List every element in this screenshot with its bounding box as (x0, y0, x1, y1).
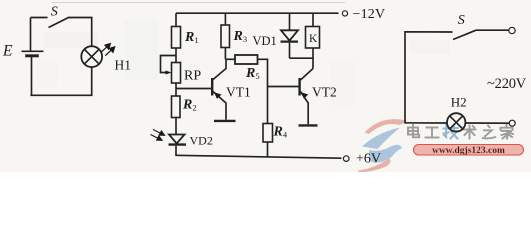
lamp H1 (81, 46, 102, 67)
transistor VT1 base bar (211, 78, 213, 96)
transistor VT2 emitter lead (301, 92, 309, 125)
scan smudge artifacts (37, 20, 450, 106)
photodiode VD2 cathode bar (169, 143, 187, 145)
wire VD2 to bottom rail (175, 146, 177, 156)
resistor R2 (172, 96, 181, 118)
terminal bottom right (509, 120, 515, 126)
wire node A to R5 (225, 58, 235, 60)
wire K to VT2 collector (312, 48, 314, 69)
wire R1 to RP (175, 48, 177, 63)
wire node B to VT2 base (268, 86, 299, 88)
wire +6V bottom rail (175, 155, 341, 158)
wire VD1 to node C (289, 43, 291, 59)
wire node C VD1 to K (290, 57, 314, 59)
svg-text:H2: H2 (451, 95, 467, 110)
photodiode VD2 light arrows (151, 130, 165, 141)
wire RP rheostat wiper loop (161, 56, 177, 73)
transistor VT1 collector lead (213, 59, 226, 79)
watermark red url box (414, 145, 524, 157)
lamp H2 (447, 113, 465, 131)
wire R2 to VD2 (175, 118, 177, 135)
resistor R5 (235, 55, 258, 64)
wire right circuit left side (405, 32, 453, 123)
transistor VT2 collector lead (301, 69, 314, 81)
wire node RP-R2 to VT1 base (176, 88, 211, 90)
ground bar VT1 emitter (214, 120, 236, 122)
svg-text:R4: R4 (273, 125, 288, 140)
svg-text:RP: RP (184, 69, 201, 84)
terminal -12V (342, 11, 347, 16)
svg-text:R1: R1 (184, 30, 199, 45)
watermark logo swirl (358, 119, 407, 172)
wire rail to VD1 (289, 13, 291, 30)
diode VD1 triangle (281, 30, 298, 40)
svg-text:VD1: VD1 (253, 34, 277, 48)
wire battery E bottom to lamp H1 bottom (31, 56, 92, 96)
potentiometer RP wiper arrowhead (166, 71, 172, 75)
wire rail to R1 (175, 13, 177, 26)
photodiode VD2 triangle (169, 135, 185, 144)
svg-text:www.dgjs123.com: www.dgjs123.com (432, 146, 505, 156)
svg-text:K: K (309, 33, 318, 45)
battery E positive plate (22, 50, 44, 52)
wire rail to relay K (312, 13, 314, 26)
diode VD1 cathode bar (281, 40, 299, 42)
transistor VT2 base bar (298, 78, 300, 96)
wire left vertical to battery E (30, 18, 32, 52)
relay coil K (306, 27, 320, 49)
wire switch S to terminal (476, 29, 509, 31)
terminal top right (509, 27, 515, 33)
wire RP to R2 (175, 83, 177, 96)
resistor R1 (172, 27, 181, 49)
svg-text:R5: R5 (245, 66, 260, 81)
svg-text:R3: R3 (233, 29, 248, 44)
lamp H1 light emission arrows (101, 44, 115, 56)
wire lamp H2 to terminal (465, 122, 509, 124)
switch S blade (right circuit) (453, 30, 476, 39)
wire battery E top to switch S (31, 17, 48, 19)
svg-text:+6V: +6V (356, 152, 381, 167)
potentiometer RP body (172, 63, 181, 84)
svg-text:R2: R2 (182, 98, 197, 113)
wire -12V top rail (176, 12, 339, 14)
battery E negative plate (25, 54, 39, 57)
ground bar VT2 emitter (299, 124, 318, 126)
svg-text:~220V: ~220V (487, 76, 527, 92)
svg-text:−12V: −12V (353, 7, 386, 22)
wire R3 to node A (224, 48, 226, 60)
transistor VT1 emitter lead (213, 92, 226, 120)
svg-text:S: S (458, 13, 465, 28)
resistor R4 (263, 124, 273, 143)
watermark chinese text (408, 125, 513, 139)
svg-text:VT1: VT1 (226, 85, 251, 100)
svg-text:S: S (51, 5, 58, 20)
switch S blade (left circuit) (49, 18, 69, 28)
svg-text:VD2: VD2 (190, 133, 213, 147)
terminal +6V (343, 156, 349, 162)
svg-text:E: E (2, 43, 13, 60)
wire switch S to lamp H1 top (68, 18, 92, 47)
svg-text:H1: H1 (115, 58, 132, 73)
resistor R3 (221, 25, 230, 48)
wire R5 to node B down to R4 (258, 59, 268, 123)
svg-text:VT2: VT2 (312, 85, 337, 100)
transistor VT2 emitter arrowhead (301, 92, 308, 98)
transistor VT1 emitter arrowhead (214, 92, 222, 99)
scan artifact top line (52, 2, 345, 4)
wire rail to R3 (224, 13, 226, 25)
wire R4 to bottom rail (267, 142, 269, 157)
